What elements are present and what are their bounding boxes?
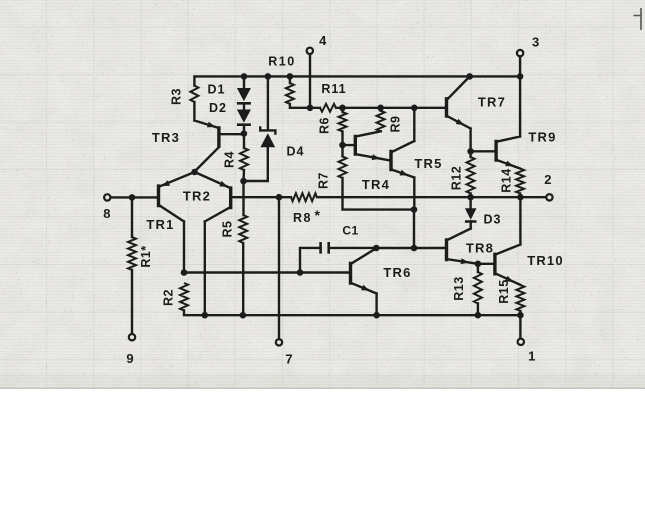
svg-text:7: 7 <box>285 351 292 366</box>
svg-text:TR10: TR10 <box>527 253 564 268</box>
svg-text:R2: R2 <box>162 289 176 306</box>
svg-text:D4: D4 <box>287 145 305 159</box>
svg-text:TR1: TR1 <box>146 217 174 232</box>
svg-text:R13: R13 <box>452 276 466 300</box>
svg-text:R6: R6 <box>318 117 332 134</box>
svg-text:R1*: R1* <box>139 245 153 267</box>
svg-text:R15: R15 <box>497 279 511 303</box>
svg-text:TR3: TR3 <box>152 130 180 145</box>
svg-text:TR8: TR8 <box>466 240 494 255</box>
svg-text:8: 8 <box>103 206 110 221</box>
svg-text:R14: R14 <box>500 168 514 192</box>
svg-text:9: 9 <box>126 351 133 366</box>
svg-text:D1: D1 <box>208 83 226 97</box>
svg-text:D2: D2 <box>209 101 227 115</box>
svg-text:C1: C1 <box>342 224 358 238</box>
svg-text:R5: R5 <box>221 221 235 238</box>
svg-text:3: 3 <box>532 35 539 50</box>
svg-text:*: * <box>315 207 321 223</box>
svg-text:D3: D3 <box>484 213 502 227</box>
svg-text:R9: R9 <box>389 116 403 133</box>
svg-text:R3: R3 <box>169 88 183 105</box>
svg-text:TR9: TR9 <box>528 130 556 145</box>
svg-text:TR4: TR4 <box>362 177 390 192</box>
svg-text:R4: R4 <box>223 151 237 168</box>
svg-text:R11: R11 <box>321 82 346 96</box>
svg-text:R8: R8 <box>293 211 312 225</box>
svg-text:R7: R7 <box>317 172 331 189</box>
svg-text:R10: R10 <box>268 55 295 69</box>
svg-text:TR6: TR6 <box>383 265 411 280</box>
svg-text:TR7: TR7 <box>478 95 506 110</box>
svg-text:2: 2 <box>544 172 551 187</box>
svg-text:R12: R12 <box>450 166 464 190</box>
svg-text:TR2: TR2 <box>183 188 211 203</box>
svg-text:TR5: TR5 <box>414 156 442 171</box>
svg-text:4: 4 <box>319 33 327 48</box>
svg-text:1: 1 <box>528 348 535 363</box>
